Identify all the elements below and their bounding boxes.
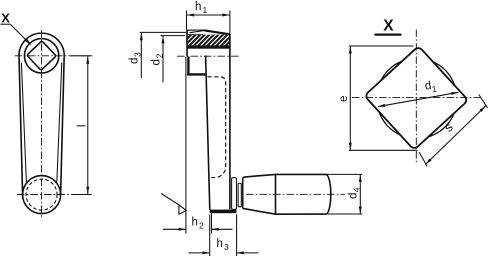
svg-text:d: d: [129, 58, 141, 64]
svg-text:2: 2: [155, 53, 165, 58]
svg-text:2: 2: [199, 221, 204, 231]
svg-text:X: X: [383, 17, 394, 34]
svg-text:3: 3: [224, 242, 229, 252]
svg-text:h: h: [192, 217, 198, 229]
svg-text:e: e: [338, 96, 350, 102]
svg-text:l: l: [77, 125, 89, 128]
svg-text:d: d: [348, 193, 360, 199]
svg-text:d: d: [151, 59, 163, 65]
svg-text:X: X: [1, 10, 10, 25]
svg-text:h: h: [217, 238, 223, 250]
svg-text:4: 4: [352, 187, 362, 192]
svg-text:h: h: [195, 1, 201, 13]
svg-text:1: 1: [203, 5, 208, 15]
svg-text:3: 3: [133, 52, 143, 57]
